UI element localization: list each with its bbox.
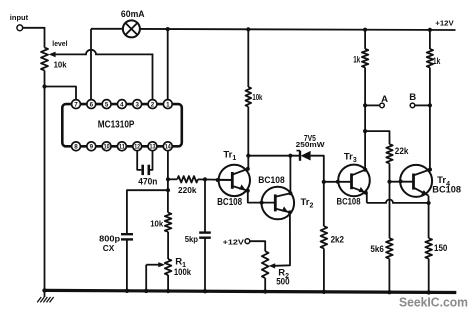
- wire 1k left down to Tr3 collector: [364, 68, 366, 170]
- wire Tr1 collector node to zener: [248, 155, 299, 157]
- svg-text:1k: 1k: [433, 55, 441, 66]
- resistor 1k left: [353, 30, 368, 68]
- pin 13: [148, 142, 157, 151]
- svg-text:5k6: 5k6: [370, 244, 383, 255]
- node rail-5k6 junction: [387, 290, 391, 294]
- wire zener to Tr3 base column: [311, 156, 324, 227]
- node rail-R1 junction: [166, 289, 170, 293]
- resistor 150: [425, 238, 447, 259]
- capacitor 5kp: [185, 233, 211, 244]
- svg-text:150: 150: [434, 243, 447, 253]
- svg-text:250mW: 250mW: [296, 140, 326, 149]
- wire Tr1 emitter to Tr2 base: [248, 191, 275, 203]
- wire rail to pin 1: [167, 29, 169, 100]
- node rail-R1 wiper junction: [144, 289, 148, 293]
- wire 800p to ground rail: [126, 239, 128, 290]
- svg-text:13: 13: [150, 144, 156, 151]
- resistor 10k upper: [246, 29, 263, 168]
- transistor Tr1 BC108: [216, 149, 250, 208]
- svg-text:14: 14: [165, 144, 171, 151]
- svg-text:10k: 10k: [252, 93, 262, 102]
- svg-text:10: 10: [104, 144, 110, 151]
- transistor Tr3 BC108: [337, 151, 370, 207]
- node pot bottom junction: [42, 84, 46, 88]
- wire R1 wiper to ground rail: [145, 265, 147, 291]
- watermark SeekIC.com: [399, 294, 468, 309]
- zener diode D1 7V5 250mW: [296, 133, 326, 161]
- wire Tr4 base: [390, 179, 414, 183]
- lamp 60mA: [91, 9, 145, 38]
- transistor Tr2 BC108: [258, 175, 313, 219]
- node rail-R2 junction: [263, 289, 267, 293]
- svg-text:+12V: +12V: [435, 19, 454, 28]
- svg-text:input: input: [10, 13, 29, 22]
- svg-text:BC108: BC108: [258, 175, 284, 186]
- svg-text:A: A: [381, 94, 388, 105]
- svg-text:60mA: 60mA: [121, 9, 145, 20]
- +12V feed terminal: [223, 238, 250, 247]
- wire 22k to Tr4 base junction: [389, 163, 391, 238]
- wire 1k right down to Tr4 collector: [429, 68, 431, 170]
- pin 14: [163, 142, 172, 151]
- pin 6: [87, 100, 96, 109]
- svg-text:10k: 10k: [150, 218, 163, 228]
- svg-text:5kp: 5kp: [185, 235, 198, 244]
- pin 1: [163, 100, 172, 109]
- capacitor 800p CX: [99, 233, 133, 253]
- node rail-2k2 junction: [322, 290, 326, 294]
- wire junction to pin 7: [45, 87, 77, 100]
- node 22k tap junction: [363, 129, 367, 133]
- svg-text:level: level: [52, 41, 67, 48]
- wire 5kp to ground rail: [204, 238, 206, 292]
- wire 150 to ground rail: [428, 259, 430, 293]
- svg-text:10k: 10k: [54, 60, 67, 70]
- svg-text:BC108: BC108: [217, 197, 242, 208]
- svg-text:4: 4: [120, 101, 124, 108]
- potentiometer R1 100k: [146, 257, 191, 277]
- pin 12: [133, 142, 142, 151]
- node A terminal: [365, 94, 388, 108]
- node 800p tap junction: [166, 188, 170, 192]
- wire pot wiper to pin 2 with hop: [55, 50, 152, 100]
- pin 4: [117, 100, 126, 109]
- node rail junction col 430: [428, 28, 432, 32]
- node Tr3 base junction: [322, 180, 326, 184]
- wire 800p tap to capacitor: [127, 190, 168, 234]
- wire Tr4 emitter to 150: [428, 196, 430, 239]
- pin 8: [72, 142, 81, 151]
- node Tr1 base junction: [203, 177, 207, 181]
- svg-text:5: 5: [105, 101, 109, 108]
- wire Tr2 collector up to zener node: [289, 156, 291, 194]
- ground symbol: [37, 290, 53, 302]
- svg-text:B: B: [409, 92, 416, 103]
- resistor 22k: [365, 131, 408, 163]
- wire 2k2 to ground rail: [323, 248, 325, 291]
- wire Tr2 emitter down to R2 wiper: [275, 212, 291, 265]
- node Tr4 base junction: [387, 180, 391, 184]
- ground rail: [45, 290, 457, 292]
- svg-text:BC108: BC108: [337, 197, 361, 208]
- node rail-5kp junction: [203, 289, 207, 293]
- svg-text:1: 1: [166, 101, 170, 108]
- emitter bus wire with hop: [367, 199, 429, 202]
- svg-text:22k: 22k: [395, 146, 409, 156]
- svg-text:BC108: BC108: [432, 185, 461, 195]
- potentiometer R2 500: [262, 251, 290, 287]
- node zener branch junction: [246, 154, 250, 158]
- pin 5: [102, 100, 111, 109]
- svg-text:12: 12: [134, 144, 140, 151]
- svg-text:MC1310P: MC1310P: [98, 120, 135, 131]
- node Tr2 collector junction on zener wire: [288, 154, 292, 158]
- pin 9: [87, 142, 96, 151]
- svg-text:8: 8: [74, 144, 78, 151]
- wire pin 14 down: [167, 151, 169, 213]
- pin 7: [72, 100, 81, 109]
- svg-text:220k: 220k: [178, 186, 197, 195]
- pin 10: [102, 142, 111, 151]
- R2 wiper arrow: [269, 263, 276, 268]
- wire R2 bottom to ground rail: [264, 278, 266, 291]
- potentiometer level 10k: [41, 41, 68, 70]
- input terminal: [10, 13, 29, 31]
- svg-text:1k: 1k: [353, 53, 361, 64]
- pin 3: [133, 100, 142, 109]
- capacitor 470n: [137, 151, 157, 188]
- svg-text:2: 2: [151, 101, 155, 108]
- node rail-800p junction: [125, 289, 129, 293]
- node B terminal: [409, 92, 430, 108]
- wire Tr1 base junction to 5kp: [204, 179, 206, 232]
- +12V top rail: [140, 19, 456, 30]
- node Tr2 base edge: [260, 201, 264, 205]
- node rail junction col 365: [363, 28, 367, 32]
- transistor Tr4 BC108: [400, 165, 461, 197]
- svg-text:800p: 800p: [99, 233, 120, 243]
- resistor 1k right: [427, 30, 441, 68]
- IC U1 MC1310P: [62, 104, 182, 146]
- node B junction: [428, 103, 432, 107]
- wire 10k to R1: [167, 232, 169, 259]
- pin 11: [117, 142, 126, 151]
- svg-text:500: 500: [276, 277, 289, 287]
- wire R1 bottom to ground rail: [167, 275, 169, 291]
- svg-text:100k: 100k: [174, 267, 192, 277]
- wire pot bottom to ground rail: [44, 70, 46, 290]
- resistor 220k: [168, 176, 232, 195]
- svg-text:9: 9: [90, 144, 94, 151]
- wire 5k6 to ground rail: [388, 259, 390, 293]
- node pin 1 rail junction: [166, 27, 170, 31]
- svg-text:3: 3: [135, 101, 139, 108]
- node emitter bus junction: [427, 201, 431, 205]
- svg-text:SeekIC.com: SeekIC.com: [399, 294, 468, 309]
- wire +12V to R2: [250, 241, 265, 251]
- svg-text:11: 11: [119, 144, 126, 151]
- node 220k tap junction: [166, 177, 170, 181]
- svg-text:7: 7: [74, 101, 78, 108]
- node rail-pot junction: [42, 288, 46, 292]
- resistor 5k6: [370, 238, 392, 259]
- resistor 2k2: [321, 226, 344, 248]
- svg-text:+12V: +12V: [223, 238, 244, 247]
- wire lamp to pin 6: [90, 29, 92, 100]
- wire Tr3 emitter to emitter bus: [366, 193, 367, 203]
- svg-text:470n: 470n: [138, 177, 157, 188]
- svg-text:CX: CX: [103, 244, 115, 253]
- resistor 10k bias: [150, 213, 171, 232]
- pin 2: [148, 100, 157, 109]
- svg-text:6: 6: [90, 101, 94, 108]
- wire Tr3 base: [324, 180, 352, 184]
- svg-text:2k2: 2k2: [331, 234, 344, 245]
- node rail-150 junction: [427, 290, 431, 294]
- node rail junction col 248: [246, 27, 250, 31]
- wire input to potentiometer: [23, 27, 45, 48]
- node A junction: [363, 103, 367, 107]
